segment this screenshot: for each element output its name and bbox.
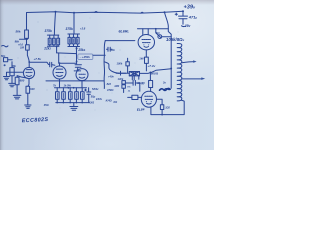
svg-text:→+250v: →+250v bbox=[79, 55, 90, 59]
resistor group RG2 375k x3 bbox=[68, 34, 80, 47]
svg-text:105k/8Ωx: 105k/8Ωx bbox=[166, 37, 185, 42]
svg-text:1k 5%: 1k 5% bbox=[64, 83, 72, 87]
ground under R4 bbox=[13, 95, 21, 99]
svg-text:50μ: 50μ bbox=[91, 94, 96, 98]
wire NFB branch to junction bbox=[105, 62, 119, 73]
svg-text:25kb: 25kb bbox=[77, 48, 85, 52]
ground main under cathode bus bbox=[70, 103, 78, 111]
svg-text:+7.3v: +7.3v bbox=[147, 64, 155, 68]
wire secondary arrow 2 bbox=[182, 78, 203, 80]
wire R1 to R2 with tap bbox=[20, 38, 28, 44]
svg-text:56k: 56k bbox=[12, 64, 17, 68]
svg-text:600Ω: 600Ω bbox=[151, 71, 159, 75]
wire drop to T2 anode line bbox=[59, 53, 76, 63]
transformer TR1 winding bbox=[177, 43, 182, 100]
node T2 anode tap bbox=[59, 62, 61, 64]
resistor R1 56k top of input chain bbox=[25, 30, 29, 38]
capacitor C1 electrolytic 471/25v at +39v rail bbox=[175, 11, 187, 26]
resistor R3 grid resistor left bbox=[10, 62, 14, 83]
svg-text:56k: 56k bbox=[16, 30, 21, 34]
box around +250v label bbox=[78, 54, 93, 59]
svg-text:EL84: EL84 bbox=[137, 107, 145, 112]
node coupling junction bbox=[76, 61, 78, 63]
svg-text:470Ω: 470Ω bbox=[106, 88, 113, 92]
wire T1 grid to left bbox=[7, 72, 24, 76]
wire supply drop to transformer core bbox=[165, 12, 172, 88]
svg-text:50n: 50n bbox=[1, 55, 6, 58]
node top-rail junction dots bbox=[55, 10, 185, 14]
node group1 output bbox=[56, 45, 58, 47]
wire crossover hop at x96 bbox=[95, 11, 98, 14]
svg-text:2n: 2n bbox=[162, 82, 166, 85]
svg-text:25v: 25v bbox=[184, 24, 191, 28]
svg-text:+7.5v: +7.5v bbox=[34, 57, 42, 61]
svg-text:1k6: 1k6 bbox=[139, 57, 144, 61]
svg-text:45Ω: 45Ω bbox=[43, 104, 49, 107]
wire U1 anode stub bbox=[142, 29, 144, 35]
svg-text:471μ: 471μ bbox=[188, 15, 198, 20]
triode T2 bbox=[53, 63, 66, 87]
wire anode bus y29 bbox=[138, 28, 169, 30]
node group2 output bbox=[76, 47, 78, 49]
capacitor marks 10n near NFB bbox=[108, 47, 110, 51]
svg-text:620: 620 bbox=[30, 87, 35, 91]
svg-text:100k: 100k bbox=[117, 62, 123, 66]
svg-text:1M2: 1M2 bbox=[114, 85, 119, 88]
wire R2 to T1 anode node bbox=[27, 50, 29, 62]
svg-text:375k: 375k bbox=[66, 27, 74, 31]
wire to U1 grid bbox=[105, 40, 135, 42]
wire T1 anode to coupling cap C2 bbox=[29, 62, 49, 64]
wire group2 feed drop bbox=[73, 13, 75, 34]
resistor row R7 cathode resistors bbox=[56, 88, 90, 104]
pin primary tap circle bbox=[155, 29, 157, 33]
capacitor C5 coupling to U2 bbox=[126, 76, 140, 91]
resistor R8 100k bbox=[126, 58, 129, 73]
svg-text:7k: 7k bbox=[53, 84, 56, 88]
triode T3 bbox=[74, 69, 88, 88]
resistor group RG1 375k x3 bbox=[47, 35, 59, 46]
wire group2 drop to coupling node bbox=[75, 47, 77, 64]
wire group1 feed drop bbox=[54, 12, 55, 35]
svg-text:1M: 1M bbox=[20, 46, 25, 50]
wire long horizontal mid bbox=[46, 80, 104, 82]
wire +250v box to NFB line bbox=[93, 54, 105, 56]
svg-text:6L6RL: 6L6RL bbox=[119, 29, 130, 33]
resistor R5 second cathode chain bbox=[26, 79, 30, 105]
svg-text:K/63: K/63 bbox=[89, 102, 95, 105]
svg-text:822: 822 bbox=[107, 82, 112, 86]
svg-text:375k: 375k bbox=[45, 29, 53, 33]
svg-text:KΩ: KΩ bbox=[114, 101, 118, 104]
svg-text:K/4Ω: K/4Ω bbox=[106, 98, 112, 102]
capacitor C3 coupling to T3 bbox=[75, 65, 81, 71]
svg-text:5%: 5% bbox=[127, 87, 130, 89]
svg-text:ECC802S: ECC802S bbox=[22, 117, 49, 124]
svg-text:140k: 140k bbox=[118, 77, 124, 81]
ground input grid-leak bbox=[4, 77, 10, 80]
wire mid horizontal y53 bbox=[57, 52, 77, 55]
svg-text:5/63v: 5/63v bbox=[92, 87, 99, 91]
capacitor C4 cathode bypass 50u bbox=[85, 88, 91, 103]
svg-text:+2.8: +2.8 bbox=[80, 27, 86, 31]
wire top supply rail bbox=[27, 11, 184, 30]
wire U2 cathode bottom return bbox=[151, 100, 184, 114]
ground under R3 bbox=[9, 83, 16, 86]
wire cathode resistor bus top bbox=[55, 87, 87, 89]
resistor R2 bbox=[26, 45, 30, 50]
wire crossover hop at x142 bbox=[141, 11, 144, 14]
wire secondary arrow 1 bbox=[182, 62, 195, 63]
pentode U2 EL84 bbox=[141, 91, 156, 107]
svg-text:+39v: +39v bbox=[184, 4, 197, 10]
wire screen bus y72 with X-box bbox=[116, 72, 129, 74]
svg-text:680: 680 bbox=[20, 79, 25, 83]
pentode U1 EL84 bbox=[138, 35, 154, 50]
svg-text:J1: J1 bbox=[128, 90, 131, 92]
node junction cross bbox=[119, 71, 126, 75]
scribble 600ohm dark bbox=[160, 88, 171, 90]
svg-text:+40v: +40v bbox=[108, 74, 114, 78]
paper speckle noise bbox=[17, 18, 178, 111]
wire U2 anode stub bbox=[149, 72, 151, 80]
svg-text:1Ω5: 1Ω5 bbox=[165, 106, 170, 109]
ground under R5 bbox=[25, 105, 31, 108]
resistor R14 above U2 bbox=[149, 81, 153, 88]
resistor R9 U1 cathode bbox=[145, 50, 149, 71]
resistor R13 bbox=[160, 105, 163, 110]
resistor R10 R11 chain bbox=[122, 81, 126, 93]
svg-text:22k3: 22k3 bbox=[43, 46, 51, 50]
capacitor C2 coupling bbox=[50, 62, 52, 67]
input connector marks bbox=[2, 45, 13, 66]
triode T1 input ECC802 bbox=[23, 62, 34, 78]
connector X-box bbox=[129, 72, 139, 80]
svg-text:10n 63: 10n 63 bbox=[137, 82, 145, 85]
wire group1 drop to mid rail bbox=[56, 46, 58, 53]
resistor R12 grid stopper bbox=[128, 95, 142, 99]
svg-text:k/63v: k/63v bbox=[96, 98, 103, 101]
wire U1 g2 stub bbox=[147, 29, 149, 35]
wire U2 to R13 bbox=[157, 99, 163, 105]
svg-text:10n: 10n bbox=[111, 49, 116, 52]
resistor R4 T1 cathode 680 bbox=[15, 76, 26, 96]
wire NFB wavy vertical bbox=[104, 41, 105, 89]
